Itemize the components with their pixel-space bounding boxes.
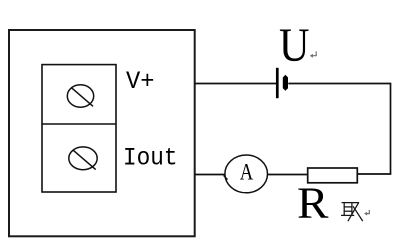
svg-text:R: R bbox=[297, 179, 329, 228]
svg-text:Iout: Iout bbox=[123, 144, 178, 173]
svg-text:V+: V+ bbox=[126, 67, 155, 96]
svg-text:A: A bbox=[240, 159, 254, 184]
svg-text:U: U bbox=[279, 19, 310, 72]
